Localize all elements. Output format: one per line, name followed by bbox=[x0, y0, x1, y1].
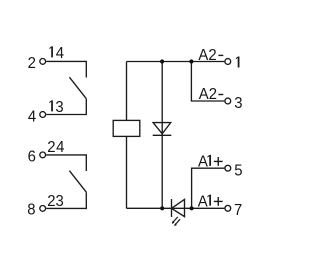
label contact 24 bbox=[47, 139, 65, 157]
label pin 8 bbox=[27, 201, 35, 219]
wire branch to pin 3 bbox=[191, 62, 224, 102]
label pin 2 bbox=[28, 54, 36, 72]
minus sign of A2- (pin 1) bbox=[218, 55, 223, 56]
label pin 3 bbox=[234, 95, 242, 113]
LED emission arrow 1 bbox=[173, 217, 178, 223]
label pin 7 bbox=[234, 202, 242, 220]
svg-text:A2: A2 bbox=[199, 86, 217, 104]
junction dot top diode branch bbox=[160, 59, 164, 63]
svg-text:A: A bbox=[198, 193, 209, 211]
svg-text:7: 7 bbox=[234, 202, 242, 220]
svg-text:3: 3 bbox=[55, 99, 63, 117]
svg-text:4: 4 bbox=[28, 108, 37, 126]
label net A2 (pin 1) bbox=[198, 46, 216, 64]
plus sign of A1+ (pin 5) bbox=[214, 157, 223, 166]
contact K1.2 wire 23 (to pin 8) bbox=[46, 192, 86, 208]
svg-text:A: A bbox=[198, 153, 209, 171]
label pin 4 bbox=[28, 108, 37, 126]
contact K1.1 wire 13 (to pin 4) bbox=[46, 99, 86, 115]
terminal circle pin 6 bbox=[40, 152, 46, 158]
terminal circle pin 2 bbox=[40, 59, 46, 65]
label net A1 (pin 7) bbox=[198, 193, 211, 211]
svg-text:23: 23 bbox=[47, 192, 64, 210]
terminal circle pin 3 bbox=[225, 98, 231, 104]
contact K1.1 wire 14 (pin 2 to fixed contact) bbox=[46, 61, 86, 77]
terminal circle pin 8 bbox=[40, 206, 46, 212]
junction dot bottom diode branch bbox=[160, 206, 164, 210]
svg-text:5: 5 bbox=[234, 162, 242, 180]
contact K1.1 blade bbox=[69, 77, 86, 99]
plus sign of A1+ (pin 7) bbox=[214, 197, 223, 206]
relay coil K1 bbox=[113, 120, 140, 136]
terminal circle pin 7 bbox=[225, 205, 231, 211]
label contact 23 bbox=[47, 192, 64, 210]
junction dot node A1 pin-5 branch bbox=[190, 206, 194, 210]
svg-text:8: 8 bbox=[27, 201, 35, 219]
wire coil branch top bbox=[126, 62, 128, 121]
label net A1 (pin 5) bbox=[198, 153, 211, 171]
wire diode branch bbox=[161, 62, 163, 209]
label pin 5 bbox=[234, 162, 242, 180]
contact K1.2 wire 24 (pin 6 to fixed contact) bbox=[46, 155, 86, 171]
label pin 6 bbox=[28, 148, 36, 166]
contact K1.2 blade bbox=[69, 171, 86, 193]
wire A1 bottom rail bbox=[127, 207, 225, 209]
wire coil branch bottom bbox=[126, 136, 128, 208]
wire branch to pin 5 bbox=[192, 168, 225, 208]
svg-text:2: 2 bbox=[28, 54, 36, 72]
LED arrowhead 2 bbox=[174, 223, 177, 226]
wire A2 top rail bbox=[127, 61, 225, 63]
LED arrowhead 1 bbox=[172, 221, 175, 224]
terminal circle pin 1 bbox=[225, 59, 231, 65]
diode V1 cathode bar bbox=[153, 134, 172, 136]
svg-text:A2: A2 bbox=[198, 46, 216, 64]
junction dot node A2 pin-3 branch bbox=[189, 59, 193, 63]
terminal circle pin 5 bbox=[225, 165, 231, 171]
terminal circle pin 4 bbox=[40, 112, 46, 118]
svg-text:3: 3 bbox=[234, 95, 242, 113]
LED emission arrow 2 bbox=[175, 219, 180, 225]
label pin 1 bbox=[236, 57, 240, 68]
svg-text:24: 24 bbox=[47, 139, 65, 157]
svg-text:4: 4 bbox=[56, 45, 65, 63]
LED V2 cathode bar bbox=[171, 199, 173, 217]
label contact 14 bbox=[49, 45, 64, 63]
LED V2 triangle bbox=[172, 199, 185, 216]
diode V1 triangle bbox=[153, 123, 171, 134]
minus sign of A2- (pin 3) bbox=[218, 94, 223, 95]
label net A2 (pin 3) bbox=[199, 86, 217, 104]
label contact 13 bbox=[49, 99, 63, 117]
svg-text:6: 6 bbox=[28, 148, 36, 166]
